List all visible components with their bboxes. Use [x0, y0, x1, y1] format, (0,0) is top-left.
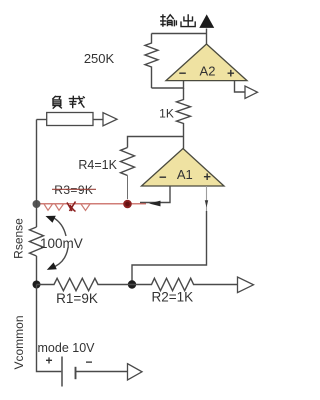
red replacement wire (was R3): [37, 203, 147, 205]
resistor 1K (between A2 inverting input and A1 output): [177, 88, 191, 149]
wire: 250K bottom to A2 inverting input: [152, 81, 184, 88]
svg-text:A2: A2: [200, 64, 216, 79]
svg-text:A1: A1: [177, 167, 193, 182]
wire: battery to output arrow: [76, 371, 128, 373]
wire: Rsense bottom to bottom rail: [36, 256, 38, 285]
strikethrough line over R3=9K: [52, 188, 96, 190]
junction dot: rail / R1: [33, 281, 41, 289]
svg-text:250K: 250K: [84, 51, 115, 66]
wire: top output rail: [152, 33, 207, 35]
svg-text:R1=9K: R1=9K: [56, 291, 98, 306]
junction dot: left rail at deleted R3: [33, 200, 41, 208]
resistor R4: [121, 148, 135, 176]
resistor Rsense: [30, 227, 44, 256]
label 负载 (load) : char 载: [69, 96, 85, 109]
R2 output arrow (open triangle): [238, 277, 254, 293]
resistor R2 with leads: [132, 278, 238, 290]
op-amp A2: [166, 44, 247, 81]
wire: left rail from load down to Rsense: [36, 120, 38, 228]
wire: rail to load box: [37, 119, 47, 121]
svg-text:+: +: [227, 66, 235, 81]
output terminal marker (filled triangle): [199, 14, 214, 28]
wire: load box to arrow: [93, 119, 103, 121]
svg-text:−: −: [85, 355, 92, 369]
resistor 250K: [145, 34, 158, 89]
wire: A1 inverting input down and left: [140, 186, 170, 203]
svg-text:1K: 1K: [159, 107, 174, 121]
load resistor box: [47, 113, 93, 126]
wire: A2 output stub to rail and output marker: [206, 29, 208, 46]
wire: R4 bottom lead: [127, 176, 129, 200]
deleted resistor R3 red zigzag marks: [44, 204, 90, 211]
svg-text:Rsense: Rsense: [12, 218, 26, 259]
A2 + input arrow (open triangle): [245, 86, 258, 98]
op-amp A1: [142, 149, 225, 187]
battery output arrow (open triangle): [128, 364, 143, 380]
label 负载 (load) : char 负: [52, 96, 62, 109]
label 输出 (output) : char 输: [160, 14, 176, 26]
measurement arrow lower: [55, 248, 68, 267]
deleted resistor R3 dark scribble: [67, 202, 76, 212]
wire: A1 non-inverting input stub (faint): [206, 186, 208, 212]
junction dot: R1 / R2 / A1 +: [128, 280, 136, 288]
resistor R1 with leads: [37, 278, 133, 290]
svg-text:R4=1K: R4=1K: [78, 158, 117, 172]
svg-text:+: +: [203, 169, 211, 184]
battery long plate (+): [61, 357, 63, 387]
measurement arrow upper: [53, 218, 66, 237]
load output arrow (open triangle): [103, 113, 117, 126]
arrow mark at A1 inverting wire: [149, 201, 161, 207]
wire: feedback node to R4 top: [128, 137, 184, 148]
label 输出 (output) : char 出: [181, 14, 195, 26]
small arrow mark on A1 + wire: [205, 200, 208, 207]
red junction dot (R4 / A1 inverting node): [123, 200, 132, 209]
wire: A1 non-inverting input to bottom node: [132, 211, 207, 285]
svg-text:Vcommon: Vcommon: [12, 315, 26, 369]
svg-text:−: −: [179, 66, 187, 81]
svg-text:R2=1K: R2=1K: [151, 290, 193, 305]
svg-text:+: +: [45, 354, 52, 368]
wire: A2 non-inverting input stub: [235, 81, 246, 92]
svg-text:−: −: [159, 170, 167, 185]
battery short plate (-): [75, 367, 77, 379]
wire: rail down to battery: [37, 285, 62, 372]
svg-text:100mV: 100mV: [40, 236, 83, 251]
